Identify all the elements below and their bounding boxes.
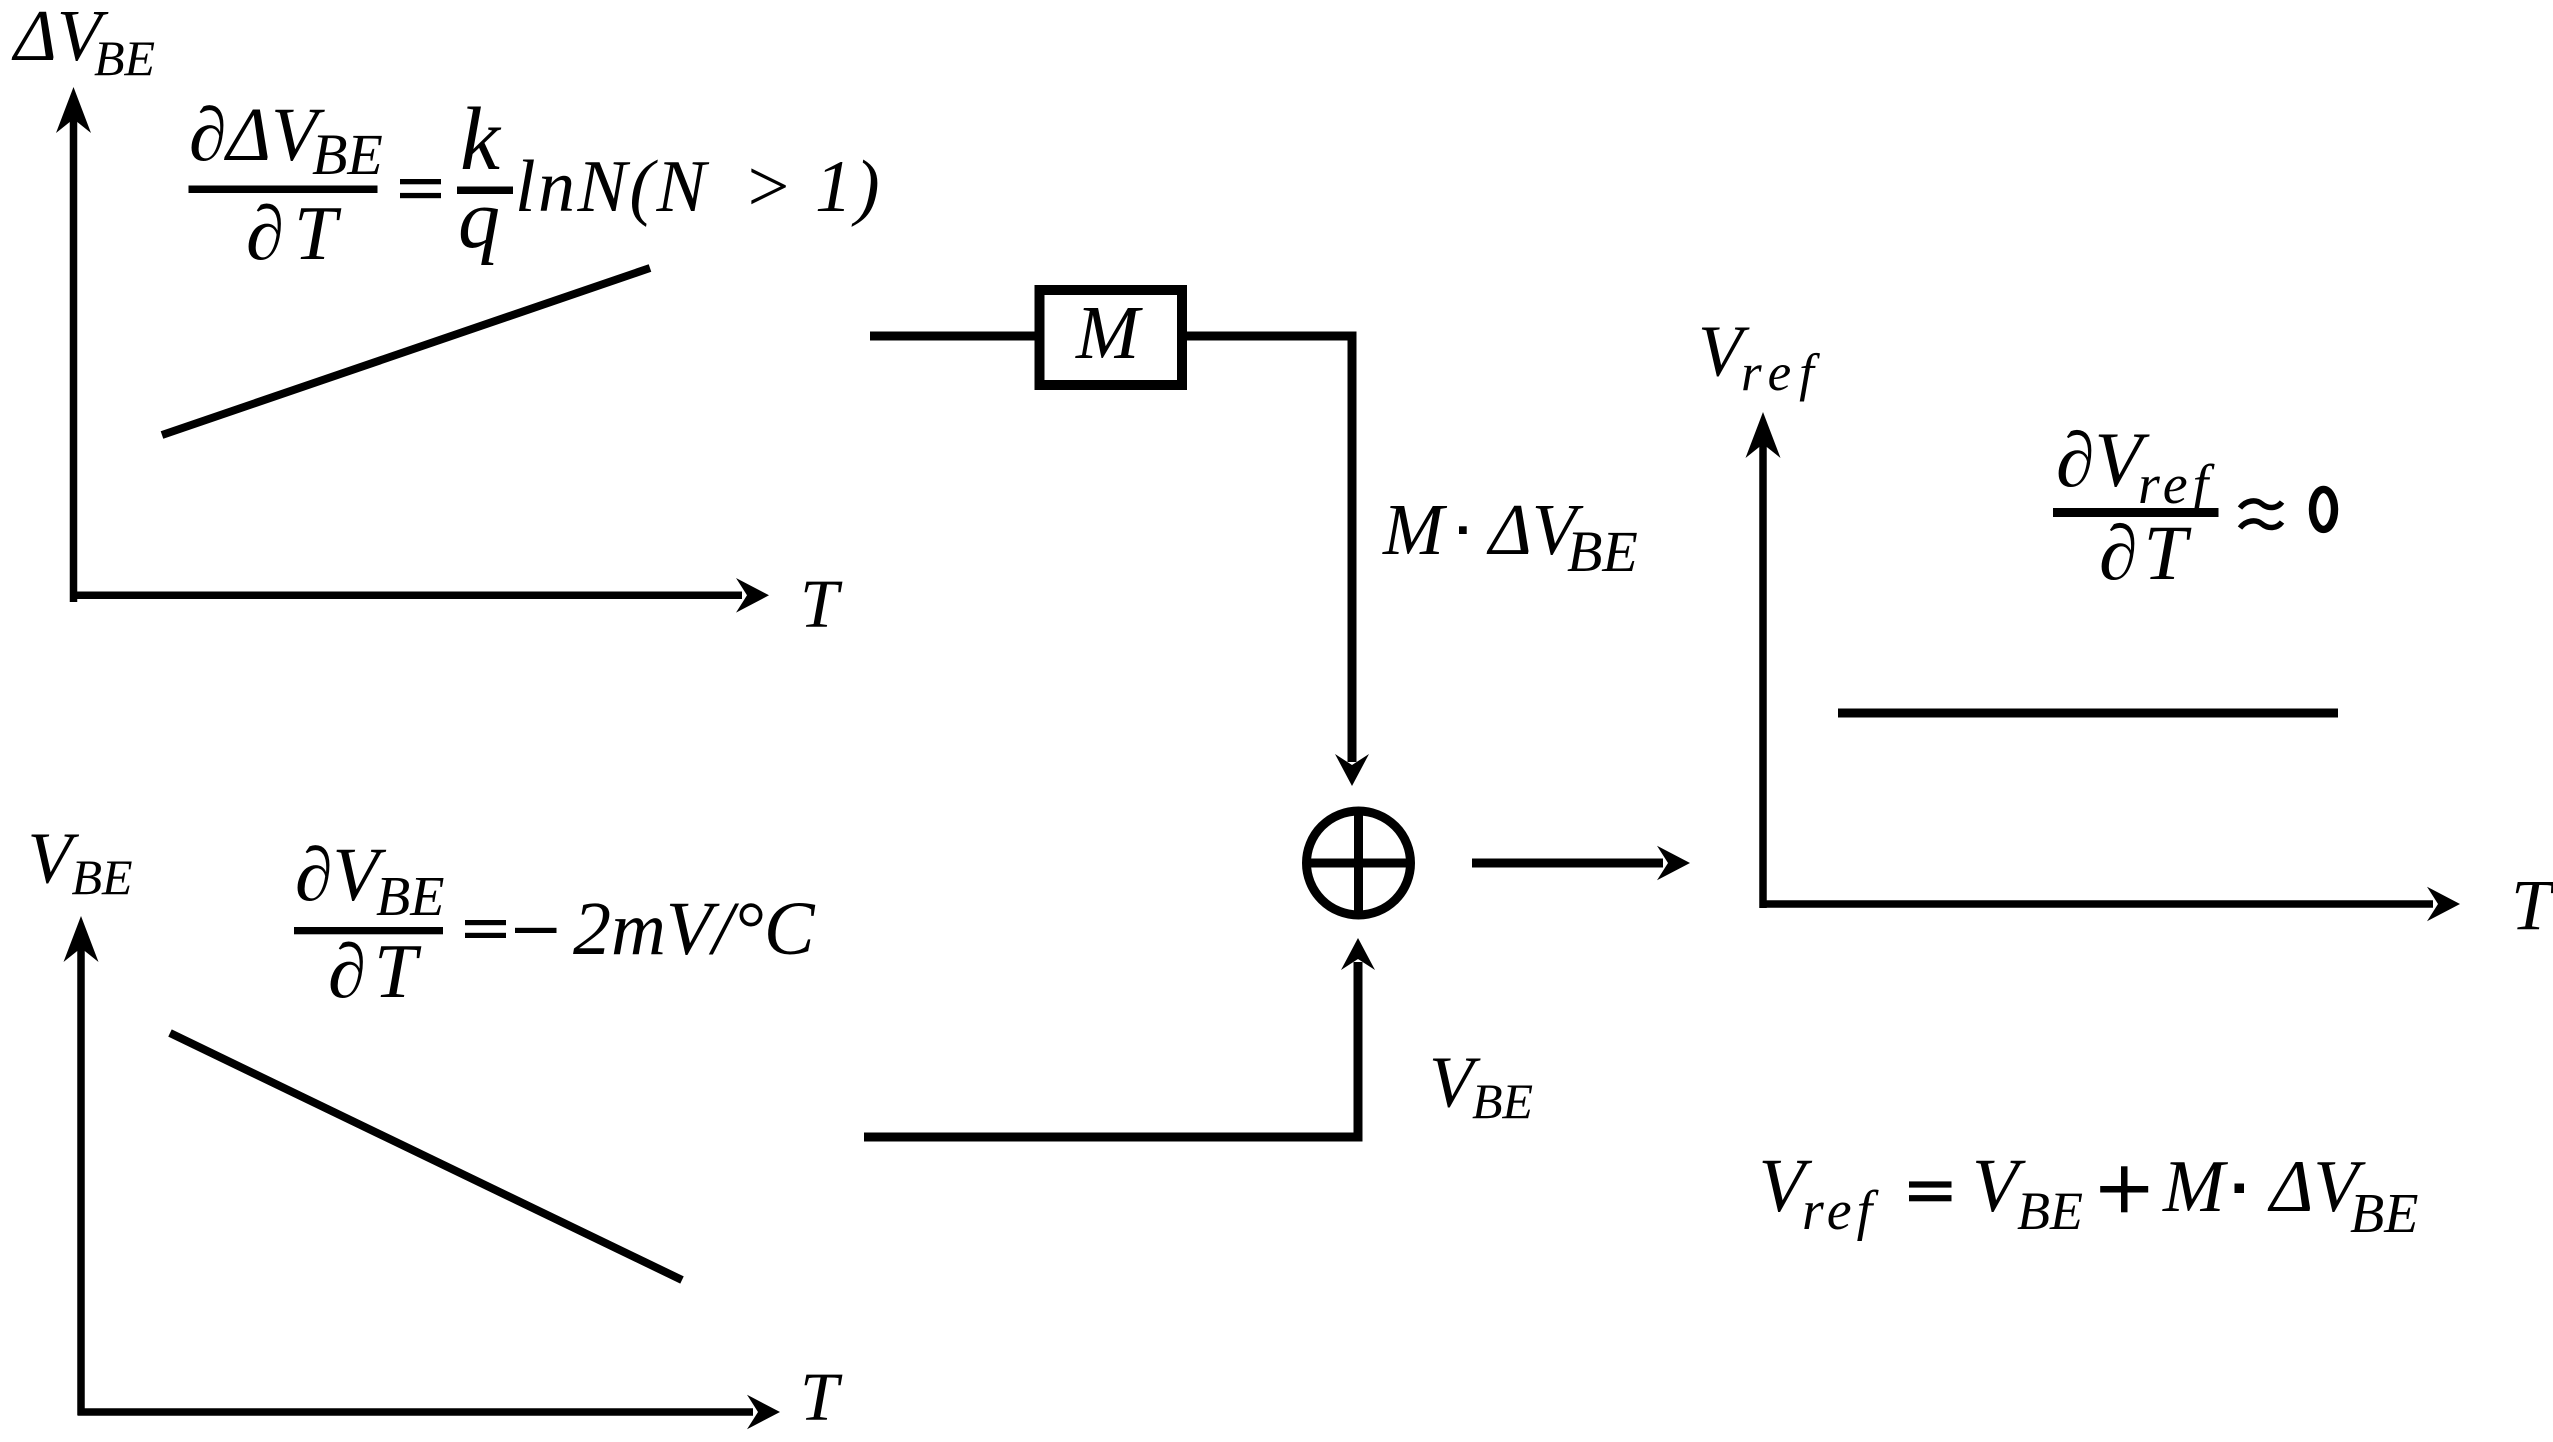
M gain block — [1040, 290, 1183, 385]
svg-text:M: M — [2162, 1146, 2229, 1228]
x-axis (bottom-left graph) — [78, 1408, 753, 1416]
svg-text:∂V: ∂V — [2056, 416, 2151, 503]
axis label dVBE (y-axis of top-left graph) — [11, 0, 155, 86]
svg-text:∂T: ∂T — [2099, 509, 2193, 596]
axis label Vref — [1698, 311, 1822, 402]
svg-text:T: T — [2511, 865, 2553, 945]
svg-text:q: q — [458, 173, 500, 266]
svg-text:ref: ref — [1741, 344, 1822, 402]
summing junction circle — [1307, 811, 1411, 915]
svg-text:2mV/°C: 2mV/°C — [573, 887, 816, 971]
y-axis (top-left graph) — [70, 115, 78, 602]
svg-text:∂T: ∂T — [328, 928, 425, 1014]
formula 2: dVref/dT ~ 0 — [2053, 416, 2335, 596]
svg-text:BE: BE — [1567, 519, 1638, 584]
rising curve (PTAT line) — [162, 268, 650, 435]
svg-text:M: M — [1075, 291, 1143, 375]
y-axis (right graph) — [1759, 440, 1767, 908]
x-axis (right graph) — [1760, 900, 2433, 908]
summer cross vertical — [1354, 811, 1363, 915]
svg-text:BE: BE — [2017, 1181, 2083, 1241]
svg-text:ref: ref — [1802, 1180, 1880, 1242]
svg-text:BE: BE — [312, 122, 383, 187]
svg-text:T: T — [800, 1359, 843, 1435]
svg-text:∂V: ∂V — [295, 833, 387, 917]
svg-text:∂T: ∂T — [246, 190, 347, 276]
svg-text:>: > — [743, 146, 793, 228]
bottom wire into summer — [864, 1133, 1363, 1142]
output arrow from summer — [1472, 859, 1663, 868]
svg-text:T: T — [800, 566, 843, 642]
svg-text:BE: BE — [2350, 1183, 2418, 1245]
svg-text:M: M — [1382, 489, 1448, 570]
up arrowhead into summer (VBE input) — [1341, 938, 1375, 970]
svg-text:ref: ref — [2138, 454, 2216, 516]
svg-text:∂ΔV: ∂ΔV — [189, 93, 325, 177]
formula 3: dVBE/dT = -2mV/degC — [294, 833, 816, 1014]
svg-text:lnN(N: lnN(N — [515, 146, 710, 228]
formula 1: d(dVBE)/dT = k/q lnN(N > 1) — [189, 90, 883, 276]
svg-text:BE: BE — [94, 30, 155, 86]
svg-text:BE: BE — [1472, 1073, 1533, 1129]
axis label VBE — [28, 817, 133, 905]
svg-text:BE: BE — [376, 866, 444, 928]
label M*dVBE — [1382, 489, 1638, 584]
vertical wire down from corner — [1348, 332, 1357, 763]
svg-text:BE: BE — [72, 849, 133, 905]
wire into M block — [870, 332, 1040, 341]
arrowhead into summer (M*dVBE input) — [1335, 754, 1369, 786]
x-axis (top-left graph) — [70, 592, 742, 600]
wire from M block to corner — [1182, 332, 1357, 341]
vertical wire up from bottom wire — [1354, 962, 1363, 1142]
summer cross horizontal — [1307, 859, 1411, 868]
flat Vref curve — [1838, 709, 2338, 718]
falling curve (CTAT line) — [170, 1033, 682, 1280]
y-axis (bottom-left graph) — [77, 944, 85, 1416]
label VBE (middle) — [1429, 1042, 1533, 1130]
svg-text:1): 1) — [815, 146, 883, 228]
